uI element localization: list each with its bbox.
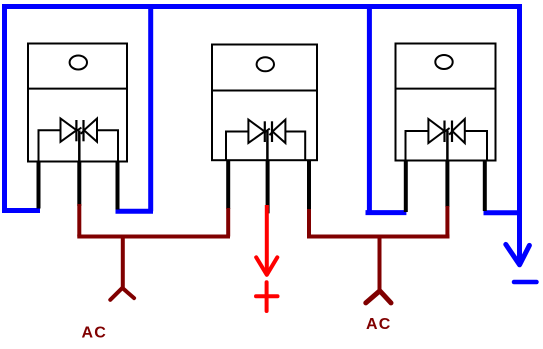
diode D5 (anode left, cathode centre)	[428, 119, 444, 143]
pin 2 (U2)	[266, 160, 270, 213]
wire: DC plus output from U2 pin2 (red)	[265, 205, 269, 274]
pin 1 (U3)	[404, 161, 408, 213]
wire: left bus drop (blue)	[2, 4, 7, 211]
pin 1 (U1)	[37, 162, 41, 209]
diode D3 (anode left, cathode centre)	[248, 120, 264, 143]
package tab divider U2	[212, 90, 317, 92]
wire: drop to U3 pin1 (blue)	[366, 210, 407, 215]
mounting hole U2	[257, 57, 274, 71]
label: plus sign (DC+ polarity) horizontal bar	[256, 294, 278, 298]
wire: U3 pin2 down to AC bus R (dark red)	[445, 206, 449, 237]
internal wire: common cathode to U1 pin2	[78, 131, 81, 162]
cathode bar D1	[75, 120, 77, 141]
package outline U2	[212, 45, 317, 161]
internal wire: U2 pin1 to D3 anode	[226, 132, 249, 161]
internal wire: U3 pin1 to D5 anode	[406, 131, 429, 161]
wire: left drop to U1 pin1 (blue)	[2, 208, 40, 213]
terminal: AC input 2 fork	[366, 291, 391, 303]
package outline U1	[28, 44, 127, 162]
internal wire: U1 pin1 to D1 anode	[39, 130, 62, 161]
diode D4 (anode right, cathode centre)	[273, 120, 286, 143]
internal wire: D4 anode to U2 pin3	[285, 132, 305, 161]
pin 3 (U1)	[116, 162, 120, 210]
label: minus sign (DC- polarity)	[514, 280, 537, 285]
terminal: DC plus output arrowhead	[256, 257, 277, 275]
diode module U3 (dual common-cathode diode package)	[396, 44, 496, 213]
wire: bus drop between U1 and U2 (blue)	[148, 7, 153, 212]
pin 1 (U2)	[226, 160, 230, 209]
diode module U2 (dual common-cathode diode package)	[212, 45, 317, 214]
wire: AC input 1 stem (dark red)	[121, 237, 125, 289]
pin 3 (U3)	[483, 161, 487, 212]
pin 3 (U2)	[307, 160, 311, 210]
wire: U1 pin2 down to AC bus L (dark red)	[77, 204, 81, 237]
pin 2 (U1)	[77, 162, 81, 207]
diode module U1 (dual common-cathode diode package)	[28, 44, 127, 210]
package tab divider U1	[28, 88, 127, 90]
label: plus sign (DC+ polarity) vertical bar	[265, 282, 269, 311]
cathode bar D4	[271, 121, 273, 142]
mounting hole U3	[435, 55, 452, 69]
internal wire: D2 anode to U1 pin3	[97, 130, 118, 161]
internal wire: common cathode to U3 pin2	[446, 131, 449, 161]
diode D1 (anode left, cathode centre)	[61, 119, 77, 142]
wire: U2 pin1 down to AC bus L (dark red)	[226, 208, 230, 237]
terminal: DC minus output arrowhead	[506, 244, 530, 264]
internal wire: common cathode to U2 pin2	[266, 131, 269, 160]
diode D6 (anode right, cathode centre)	[452, 119, 465, 143]
cathode bar D6	[451, 121, 453, 143]
package outline U3	[396, 44, 496, 161]
diode D2 (anode right, cathode centre)	[84, 119, 97, 142]
wire: AC bus R joining U2 pin3 and U3 pin2 (dark red)	[307, 235, 450, 239]
wire: AC input 2 stem (dark red)	[378, 237, 382, 291]
cathode bar D2	[82, 120, 84, 141]
package tab divider U3	[396, 88, 496, 90]
wire: bus drop between U2 and U3 (blue)	[367, 7, 372, 213]
wire: top negative bus rail (blue)	[2, 4, 521, 9]
mounting hole U1	[70, 56, 87, 70]
internal wire: D6 anode to U3 pin3	[465, 131, 487, 161]
pin 2 (U3)	[445, 161, 449, 208]
wire: AC bus L joining U1 pin2 and U2 pin1 (dark red)	[77, 235, 230, 239]
wire: drop to U1 pin3 (blue)	[116, 209, 154, 214]
terminal: AC input 1 fork	[110, 288, 134, 300]
wire: U3 pin3 to right bus drop (blue)	[484, 210, 522, 215]
cathode bar D5	[443, 121, 445, 143]
wire: U2 pin3 down to AC bus R (dark red)	[307, 209, 311, 237]
wire: right bus drop to DC minus terminal (blue)	[517, 4, 522, 265]
svg-text:AC: AC	[366, 316, 392, 333]
svg-text:AC: AC	[82, 325, 108, 342]
cathode bar D3	[264, 121, 266, 142]
